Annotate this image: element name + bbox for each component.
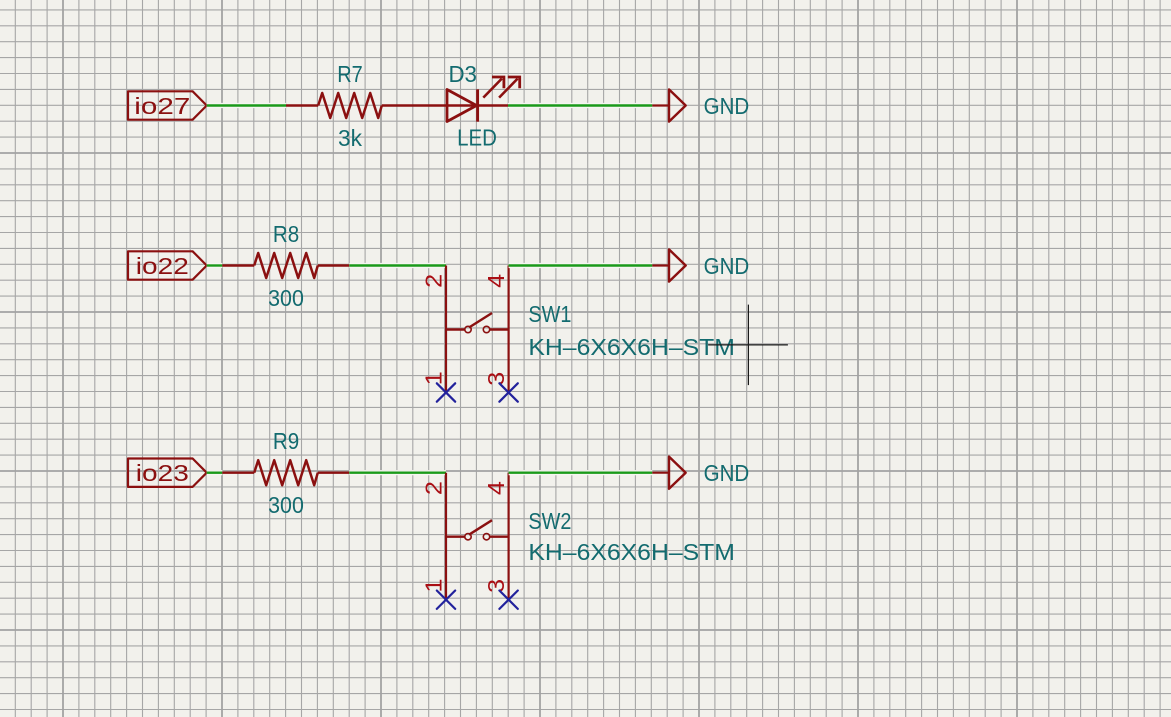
switch SW2 left contact circle: [465, 534, 471, 540]
svg-text:1: 1: [421, 371, 447, 385]
power symbol GND arrow: [669, 457, 686, 489]
R9 left lead: [222, 472, 254, 474]
svg-text:io23: io23: [136, 460, 189, 486]
hierarchical label io23: [128, 459, 207, 487]
svg-text:3: 3: [483, 372, 509, 386]
switch SW1 left contact circle: [465, 326, 471, 332]
svg-text:GND: GND: [704, 253, 750, 279]
power symbol GND pin: [652, 472, 669, 474]
svg-text:2: 2: [421, 481, 447, 495]
wire io22 to R8: [207, 263, 223, 268]
switch SW2 pin 4 line: [508, 473, 510, 600]
svg-text:SW2: SW2: [528, 508, 571, 534]
svg-text:KH–6X6X6H–STM: KH–6X6X6H–STM: [528, 334, 735, 360]
wire SW2 to GND: [509, 470, 653, 475]
R7 right lead to D3: [382, 104, 508, 106]
resistor R7: [318, 93, 382, 118]
hierarchical label io27: [128, 91, 207, 119]
svg-text:GND: GND: [704, 93, 750, 119]
R9 right lead: [318, 472, 350, 474]
no-connect X pin 3: [499, 383, 517, 401]
no-connect X pin 1: [437, 591, 455, 609]
switch SW1 right contact stub: [490, 328, 509, 330]
svg-text:D3: D3: [448, 61, 477, 87]
svg-text:4: 4: [483, 274, 509, 288]
wire SW1 to GND: [509, 263, 653, 268]
hierarchical label io22: [128, 251, 207, 279]
switch SW1 pin 2 line: [445, 266, 447, 393]
R8 right lead: [318, 264, 350, 266]
svg-text:R7: R7: [337, 61, 363, 87]
svg-text:3: 3: [483, 579, 509, 593]
LED D3 cathode bar: [476, 89, 479, 121]
switch SW2 right contact circle: [483, 534, 489, 540]
wire io23 to R9: [207, 470, 223, 475]
resistor R8: [254, 253, 318, 278]
svg-text:3k: 3k: [338, 125, 362, 151]
cursor crosshair: [708, 344, 788, 346]
svg-text:io27: io27: [134, 93, 190, 119]
R8 left lead: [222, 264, 254, 266]
svg-text:LED: LED: [457, 125, 497, 151]
LED arrow 1: [483, 79, 502, 98]
R7 left lead: [286, 104, 318, 106]
wire io27 to R7: [207, 103, 286, 108]
svg-text:1: 1: [421, 579, 447, 593]
switch SW1 right contact circle: [483, 326, 489, 332]
svg-text:io22: io22: [136, 253, 189, 279]
svg-text:GND: GND: [704, 460, 750, 486]
LED arrow 2: [499, 79, 517, 98]
svg-text:4: 4: [483, 481, 509, 495]
power symbol GND arrow: [669, 249, 686, 281]
svg-text:R9: R9: [273, 428, 299, 454]
power symbol GND pin: [652, 104, 669, 106]
power symbol GND arrow: [669, 89, 686, 121]
no-connect X pin 1: [437, 383, 455, 401]
svg-text:SW1: SW1: [528, 301, 571, 327]
wire R8 to SW1: [349, 263, 446, 268]
switch SW2 pin 2 line: [445, 473, 447, 600]
switch SW2 right contact stub: [490, 536, 509, 538]
wire D3 to GND: [508, 103, 652, 108]
switch SW1 left contact stub: [446, 328, 465, 330]
resistor R9: [254, 460, 318, 485]
switch SW2 left contact stub: [446, 536, 465, 538]
switch SW1 lever: [469, 313, 492, 328]
wire R9 to SW2: [349, 470, 446, 475]
svg-text:300: 300: [268, 285, 304, 311]
svg-text:KH–6X6X6H–STM: KH–6X6X6H–STM: [528, 539, 735, 565]
svg-text:300: 300: [268, 492, 304, 518]
switch SW1 pin 4 line: [508, 266, 510, 393]
switch SW2 lever: [469, 520, 492, 535]
svg-text:R8: R8: [273, 221, 299, 247]
svg-text:2: 2: [421, 274, 447, 288]
power symbol GND pin: [652, 264, 669, 266]
LED D3 triangle: [447, 90, 477, 122]
no-connect X pin 3: [499, 591, 517, 609]
